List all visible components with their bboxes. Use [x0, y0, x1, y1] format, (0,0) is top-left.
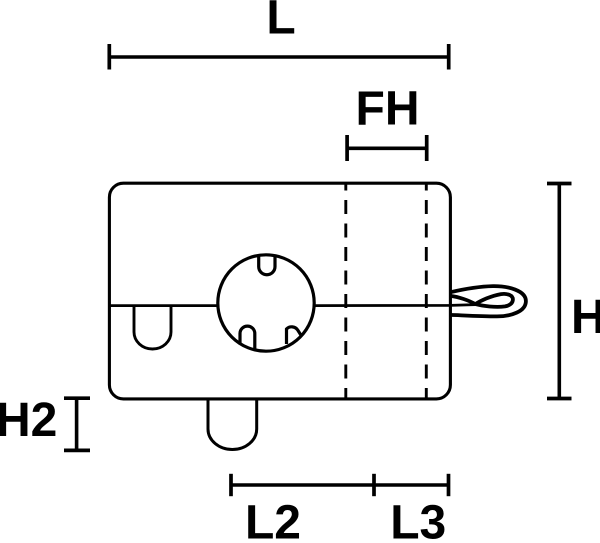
tick FH left	[345, 135, 349, 161]
svg-text:H: H	[571, 291, 600, 344]
dimension line L	[109, 55, 448, 59]
loop eye slot	[475, 294, 513, 307]
left inner tab	[134, 306, 171, 349]
tick L right	[447, 44, 451, 70]
dimension line H	[557, 184, 561, 399]
dimension line L2/L3	[231, 483, 449, 487]
tick middle (L2/L3 boundary)	[372, 474, 376, 496]
loop outer outline	[451, 286, 526, 316]
dimension line H2	[75, 398, 79, 450]
bottom-right notch on circle (tilted)	[287, 327, 302, 344]
loop wedge top line	[451, 296, 475, 304]
tick L3 right	[447, 474, 451, 496]
dashed line left (FH zone)	[344, 185, 347, 398]
bottom tab	[208, 399, 257, 450]
dimension line FH	[347, 147, 427, 151]
tick H2 bottom	[64, 449, 90, 453]
tick L2 left	[229, 474, 233, 496]
svg-text:H2: H2	[0, 394, 57, 447]
body outline rounded rectangle	[109, 183, 450, 399]
bottom-left notch on circle	[240, 326, 255, 350]
tick H top	[547, 182, 572, 186]
dashed line right (FH zone)	[425, 185, 428, 398]
svg-text:L3: L3	[390, 497, 446, 543]
tick H2 top	[64, 396, 90, 400]
mid split line right segment (runs into loop wedge)	[314, 305, 476, 306]
svg-text:FH: FH	[356, 82, 420, 135]
mid split line left segment	[109, 304, 218, 307]
tick L left	[107, 44, 111, 70]
svg-text:L: L	[266, 0, 295, 45]
center circle (cradle)	[218, 255, 314, 351]
top notch on circle	[259, 255, 275, 275]
svg-text:L2: L2	[245, 497, 301, 543]
tick H bottom	[547, 397, 572, 401]
tick FH right	[425, 135, 429, 161]
